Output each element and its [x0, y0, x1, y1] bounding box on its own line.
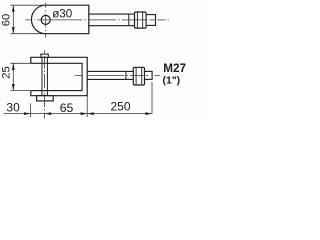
arrowhead 30 right [24, 112, 31, 115]
pin head (top) [41, 54, 48, 57]
dimension line [4, 113, 153, 115]
extension line at fork right end [86, 96, 88, 117]
hex nut (top view) [135, 12, 147, 28]
plate outline (rounded left end) [31, 5, 88, 34]
arrowhead 65 left [45, 112, 52, 115]
svg-text:60: 60 [0, 14, 12, 26]
arrowhead 250 right [145, 112, 152, 115]
slot (jaw) lines [31, 63, 82, 90]
svg-text:(1"): (1") [163, 75, 181, 86]
centerline (top view, horizontal dash-dot) [25, 19, 168, 21]
rod (front view) [87, 71, 133, 79]
pin through fork [41, 57, 43, 95]
svg-text:250: 250 [110, 100, 130, 114]
arrowhead 250 left [87, 112, 94, 115]
extension line at rod end [151, 82, 153, 114]
dimension 60 [10, 4, 47, 6]
svg-text:65: 65 [60, 101, 74, 115]
thread start line (front view) [125, 71, 127, 79]
fork body outline [31, 57, 87, 95]
rod end stub (front view) [145, 71, 153, 79]
rod (top view) [89, 14, 135, 26]
thread start line (top view) [128, 14, 130, 26]
rod centerline (front view) [75, 74, 160, 76]
rod end stub (top view) [146, 15, 155, 26]
hole circle o30 [41, 15, 50, 24]
svg-text:25: 25 [0, 66, 12, 78]
hole vertical centerline [45, 3, 47, 38]
pin nut (bottom) [37, 96, 54, 101]
svg-text:30: 30 [6, 101, 20, 115]
extension line at fork left end [29, 104, 31, 118]
hex nut (front view) [133, 67, 144, 85]
pin centerline (vertical dash-dot) [44, 50, 46, 118]
svg-text:M27: M27 [163, 62, 186, 75]
arrowhead 65 right [81, 112, 88, 115]
dimension 25 [10, 62, 31, 64]
svg-text:ø30: ø30 [52, 8, 72, 21]
